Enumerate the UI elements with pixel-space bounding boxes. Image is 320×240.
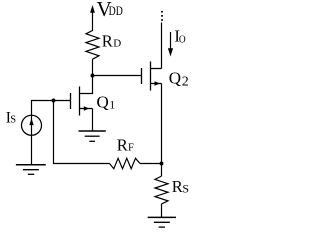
- svg-text:DD: DD: [109, 3, 123, 18]
- wire node B down to RF row: [54, 101, 110, 164]
- svg-text:1: 1: [109, 100, 115, 112]
- svg-text:S: S: [182, 181, 189, 195]
- resistor RS: [155, 176, 168, 204]
- wire Q2 source down to node C: [161, 84, 163, 164]
- transistor Q1: [71, 87, 93, 116]
- svg-text:Q: Q: [97, 93, 109, 112]
- wire IS top to node B: [32, 101, 71, 116]
- wire IS bottom to ground: [31, 135, 33, 164]
- wire node C to RS: [161, 164, 163, 177]
- dotted wire (top right continuation): [161, 11, 163, 21]
- resistor RF: [110, 158, 141, 168]
- node B junction dot: [52, 99, 56, 103]
- wire RF to node C: [140, 163, 162, 165]
- svg-text:R: R: [117, 135, 128, 154]
- node C junction dot: [160, 162, 164, 166]
- svg-text:F: F: [128, 142, 134, 153]
- wire RD to node A: [92, 59, 94, 76]
- current Io arrow: [170, 32, 172, 50]
- svg-text:R: R: [172, 177, 183, 196]
- transistor Q2: [142, 62, 162, 91]
- ground (IS): [16, 165, 46, 175]
- wire Q2 drain up (output branch): [161, 23, 163, 69]
- resistor RD: [86, 31, 99, 60]
- svg-text:R: R: [102, 32, 113, 51]
- power VDD arrow: [92, 9, 94, 31]
- wire node A to Q2 gate: [93, 75, 142, 77]
- svg-text:Q: Q: [169, 69, 181, 88]
- ground (Q1 source): [79, 131, 106, 141]
- wire RS to ground: [161, 204, 163, 217]
- node A junction dot: [91, 74, 95, 78]
- wire node A to Q1 drain: [80, 76, 93, 94]
- svg-text:S: S: [10, 115, 16, 126]
- svg-text:O: O: [179, 33, 186, 45]
- wire Q1 source to ground: [92, 109, 94, 132]
- svg-text:D: D: [113, 38, 121, 50]
- current source IS: [22, 115, 42, 135]
- svg-text:2: 2: [182, 74, 189, 89]
- ground (RS): [148, 217, 176, 227]
